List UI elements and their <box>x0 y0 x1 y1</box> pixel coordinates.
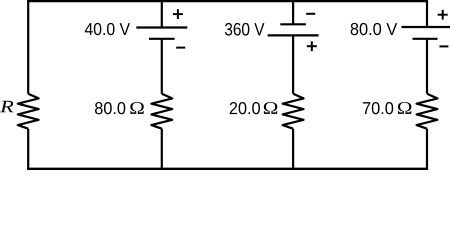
label 360 V <box>225 23 264 36</box>
resistor R3 70 ohm <box>417 94 438 129</box>
battery V3 long plate (+) <box>402 26 450 28</box>
label 40.0 V <box>85 23 130 35</box>
label 20.0 ohm value <box>230 102 260 114</box>
wire right top stub <box>426 1 428 27</box>
wire left bottom segment <box>27 129 29 169</box>
battery V3 minus sign <box>439 45 448 47</box>
wire branch2 mid segment <box>292 35 294 93</box>
battery V1 short plate (-) <box>149 38 175 40</box>
label R <box>0 101 13 112</box>
wire top <box>27 0 428 2</box>
wire left top segment <box>27 1 29 94</box>
label 70.0 ohm value <box>363 102 393 114</box>
resistor R2 20 ohm <box>283 94 304 129</box>
battery V1 long plate (+) <box>136 26 187 28</box>
battery V2 long plate (+) <box>268 34 319 36</box>
wire branch1 bottom segment <box>161 129 163 169</box>
label 80.0 ohm symbol <box>130 102 143 114</box>
wire bottom <box>27 168 428 170</box>
battery V1 plus sign <box>173 13 183 15</box>
wire branch1 top stub <box>161 1 163 27</box>
wire right bottom segment <box>426 129 428 169</box>
label 20.0 ohm symbol <box>264 102 277 114</box>
battery V2 plus sign <box>307 45 317 47</box>
battery V2 short plate (-) <box>280 23 306 25</box>
wire branch2 top stub <box>292 1 294 24</box>
battery V3 short plate (-) <box>413 38 438 40</box>
label 70.0 ohm symbol <box>398 102 411 114</box>
wire branch1 mid segment <box>161 39 163 94</box>
resistor R1 80 ohm <box>151 94 172 129</box>
battery V1 minus sign <box>176 47 185 49</box>
battery V3 plus sign <box>438 14 448 16</box>
resistor R <box>18 94 39 129</box>
battery V2 minus sign <box>306 13 315 15</box>
wire right mid segment <box>426 39 428 94</box>
wire branch2 bottom segment <box>292 129 294 169</box>
label 80.0 V <box>351 23 398 35</box>
label 80.0 ohm value <box>95 102 125 114</box>
